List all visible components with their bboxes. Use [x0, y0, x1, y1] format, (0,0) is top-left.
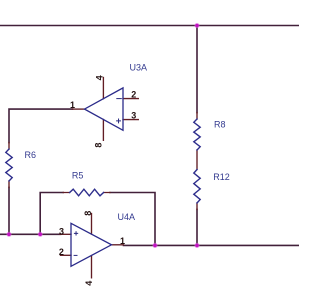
junction at output/R5 loop — [152, 243, 157, 248]
svg-text:4: 4 — [84, 281, 94, 286]
op-amp U3A minus sign — [117, 98, 122, 100]
op-amp U4A pin 4 stub — [91, 256, 93, 278]
op-amp U4A pin 3 stub — [60, 233, 71, 235]
svg-text:U4A: U4A — [118, 212, 136, 222]
wire R5 loop right — [110, 193, 155, 246]
resistor R5 body — [70, 189, 104, 196]
svg-text:1: 1 — [70, 100, 75, 110]
op-amp U4A minus sign — [74, 254, 77, 256]
resistor R8 body — [194, 119, 200, 150]
resistor R12 body — [194, 170, 200, 204]
resistor R6 pin stubs — [8, 143, 10, 188]
op-amp U4A pin 8 stub — [91, 214, 93, 235]
svg-text:2: 2 — [59, 247, 64, 257]
svg-text:U3A: U3A — [130, 63, 148, 73]
op-amp U4A plus sign — [74, 232, 77, 235]
op-amp U3A triangle — [85, 88, 124, 130]
wire right column upper — [196, 26, 198, 113]
resistor R6 body — [6, 149, 12, 181]
junction at output/R12 — [194, 243, 199, 248]
resistor R5 pin stubs — [63, 192, 110, 194]
wire top rail — [0, 25, 299, 27]
svg-text:2: 2 — [131, 90, 136, 100]
svg-text:8: 8 — [83, 211, 93, 216]
junction at input/R6 — [6, 232, 11, 237]
op-amp U4A triangle — [71, 223, 112, 266]
svg-text:R12: R12 — [213, 172, 230, 182]
wire bottom rail — [124, 244, 300, 246]
junction at input/R5 loop — [38, 232, 43, 237]
svg-text:R6: R6 — [25, 150, 37, 160]
op-amp U4A pin 2 stub — [61, 254, 72, 256]
svg-text:1: 1 — [120, 236, 125, 246]
wire R5 loop left — [40, 193, 63, 235]
svg-text:R8: R8 — [214, 119, 226, 129]
op-amp U3A pin 2 stub — [123, 98, 138, 100]
op-amp U4A pin 1 stub — [112, 244, 124, 246]
svg-text:8: 8 — [93, 143, 103, 148]
resistor R8 pin stubs — [196, 113, 198, 210]
wire input bottom — [0, 233, 61, 235]
wire left column lower — [8, 187, 10, 234]
svg-text:3: 3 — [59, 226, 64, 236]
op-amp U3A pin 1 stub — [73, 108, 85, 110]
op-amp U3A pin 3 stub — [123, 119, 138, 121]
svg-text:4: 4 — [94, 75, 104, 80]
wire U3A output to left column — [9, 109, 73, 143]
op-amp U3A plus sign — [117, 119, 121, 123]
op-amp U3A pin 4 stub — [102, 78, 104, 99]
wire right column lower — [196, 209, 198, 245]
svg-text:R5: R5 — [72, 171, 84, 181]
junction at top rail — [194, 23, 199, 28]
svg-text:3: 3 — [131, 110, 136, 120]
op-amp U3A pin 8 stub — [102, 120, 104, 141]
